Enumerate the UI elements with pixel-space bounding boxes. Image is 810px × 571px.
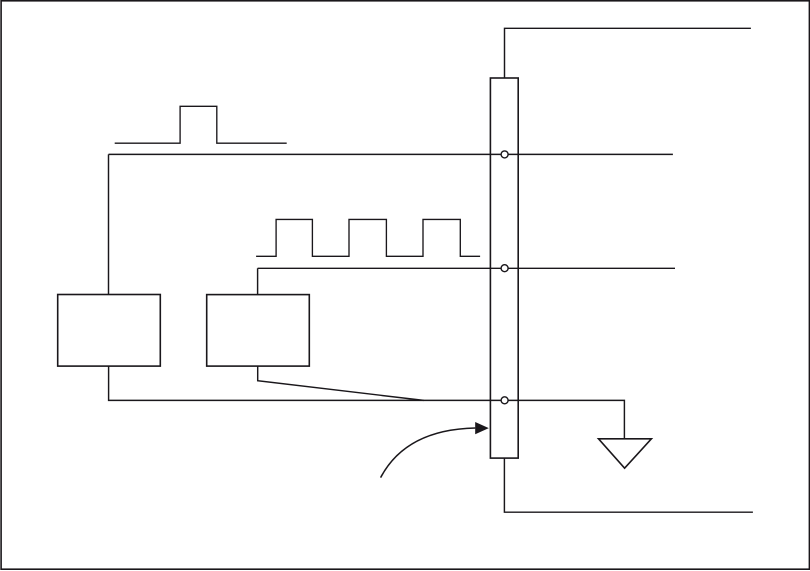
- wire top supply from bus to right: [505, 28, 751, 78]
- node pin row 3: [501, 397, 508, 404]
- waveform single pulse annotation: [115, 106, 287, 143]
- block left: [58, 295, 161, 367]
- wire from right block bottom sloping to row 3: [258, 366, 424, 400]
- wire bus bottom to lower right: [504, 458, 753, 513]
- wire row 1 horizontal through bus: [109, 153, 673, 155]
- wire from row 2 down to right block: [257, 268, 259, 294]
- wire row 3 from bus to ground drop: [504, 400, 624, 438]
- callout curved arrow pointing at bus: [381, 428, 476, 478]
- wire from row 1 down to left block: [108, 154, 110, 294]
- bus connector bar: [490, 78, 518, 458]
- ground symbol: [599, 439, 652, 468]
- wire from left block bottom: [109, 366, 504, 400]
- node pin row 1: [501, 151, 508, 158]
- node pin row 2: [501, 265, 508, 272]
- block right: [207, 295, 310, 367]
- waveform clock train annotation: [256, 219, 480, 256]
- wire row 2 horizontal through bus: [258, 267, 675, 269]
